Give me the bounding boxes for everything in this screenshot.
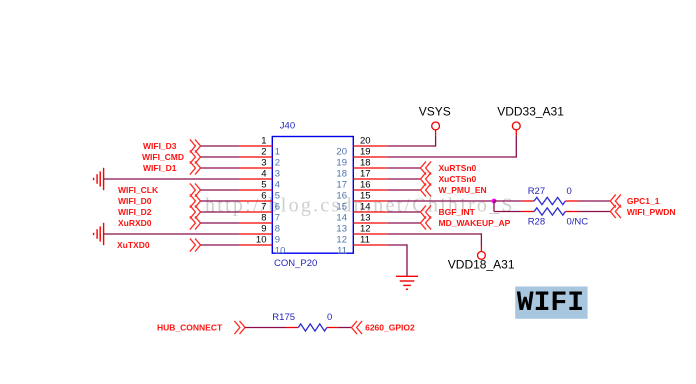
svg-text:6: 6 <box>261 191 266 202</box>
svg-text:XuCTSn0: XuCTSn0 <box>439 174 477 184</box>
svg-text:7: 7 <box>275 212 280 223</box>
svg-text:WIFI_PWDN: WIFI_PWDN <box>627 207 676 217</box>
svg-text:10: 10 <box>256 235 267 246</box>
svg-text:12: 12 <box>360 224 371 235</box>
svg-text:0: 0 <box>327 312 332 323</box>
svg-text:R27: R27 <box>528 186 545 197</box>
svg-text:16: 16 <box>360 180 371 191</box>
svg-text:9: 9 <box>275 234 280 245</box>
svg-text:J40: J40 <box>280 120 295 131</box>
svg-text:1: 1 <box>261 136 266 147</box>
svg-text:R175: R175 <box>272 312 295 323</box>
svg-text:5: 5 <box>275 190 280 201</box>
svg-text:WIFI_D0: WIFI_D0 <box>118 196 152 206</box>
svg-text:18: 18 <box>360 158 371 169</box>
svg-text:WIFI_D2: WIFI_D2 <box>118 207 152 217</box>
svg-text:WIFI_D3: WIFI_D3 <box>143 141 177 151</box>
svg-text:MD_WAKEUP_AP: MD_WAKEUP_AP <box>439 218 511 228</box>
svg-text:3: 3 <box>275 168 280 179</box>
svg-text:XuRXD0: XuRXD0 <box>118 218 152 228</box>
svg-text:7: 7 <box>261 202 266 213</box>
svg-text:14: 14 <box>336 212 347 223</box>
svg-text:17: 17 <box>360 169 371 180</box>
svg-text:WIFI_D1: WIFI_D1 <box>143 163 177 173</box>
svg-text:BGF_INT: BGF_INT <box>439 207 476 217</box>
svg-text:HUB_CONNECT: HUB_CONNECT <box>157 323 223 333</box>
svg-text:4: 4 <box>275 179 280 190</box>
svg-text:CON_P20: CON_P20 <box>274 258 317 269</box>
svg-text:5: 5 <box>261 180 266 191</box>
svg-text:18: 18 <box>336 168 347 179</box>
svg-text:R28: R28 <box>528 217 545 228</box>
svg-text:4: 4 <box>261 169 266 180</box>
svg-text:3: 3 <box>261 158 266 169</box>
svg-text:14: 14 <box>360 202 371 213</box>
svg-text:WIFI_CLK: WIFI_CLK <box>118 185 159 195</box>
svg-text:17: 17 <box>336 179 347 190</box>
svg-text:VSYS: VSYS <box>419 105 451 119</box>
svg-text:8: 8 <box>261 213 266 224</box>
svg-text:VDD33_A31: VDD33_A31 <box>497 105 564 119</box>
svg-text:13: 13 <box>360 213 371 224</box>
svg-text:15: 15 <box>360 191 371 202</box>
svg-text:0: 0 <box>567 186 572 197</box>
svg-text:13: 13 <box>336 223 347 234</box>
svg-text:9: 9 <box>261 224 266 235</box>
svg-text:W_PMU_EN: W_PMU_EN <box>439 185 487 195</box>
svg-text:8: 8 <box>275 223 280 234</box>
svg-text:VDD18_A31: VDD18_A31 <box>448 258 515 272</box>
svg-text:11: 11 <box>337 245 347 256</box>
svg-text:XuRTSn0: XuRTSn0 <box>439 163 477 173</box>
svg-text:GPC1_1: GPC1_1 <box>627 196 660 206</box>
svg-text:6260_GPIO2: 6260_GPIO2 <box>365 323 415 333</box>
svg-text:6: 6 <box>275 201 280 212</box>
svg-text:20: 20 <box>336 146 347 157</box>
svg-text:19: 19 <box>336 157 347 168</box>
svg-text:WIFI: WIFI <box>517 288 584 319</box>
svg-text:11: 11 <box>360 235 370 246</box>
svg-text:1: 1 <box>275 146 280 157</box>
svg-text:15: 15 <box>336 201 347 212</box>
svg-text:XuTXD0: XuTXD0 <box>117 240 150 250</box>
svg-text:10: 10 <box>275 245 286 256</box>
svg-text:2: 2 <box>275 157 280 168</box>
svg-text:0/NC: 0/NC <box>567 217 589 228</box>
svg-text:19: 19 <box>360 147 371 158</box>
svg-text:16: 16 <box>336 190 347 201</box>
svg-text:2: 2 <box>261 147 266 158</box>
svg-text:20: 20 <box>360 136 371 147</box>
svg-text:12: 12 <box>336 234 347 245</box>
svg-text:WIFI_CMD: WIFI_CMD <box>142 152 184 162</box>
